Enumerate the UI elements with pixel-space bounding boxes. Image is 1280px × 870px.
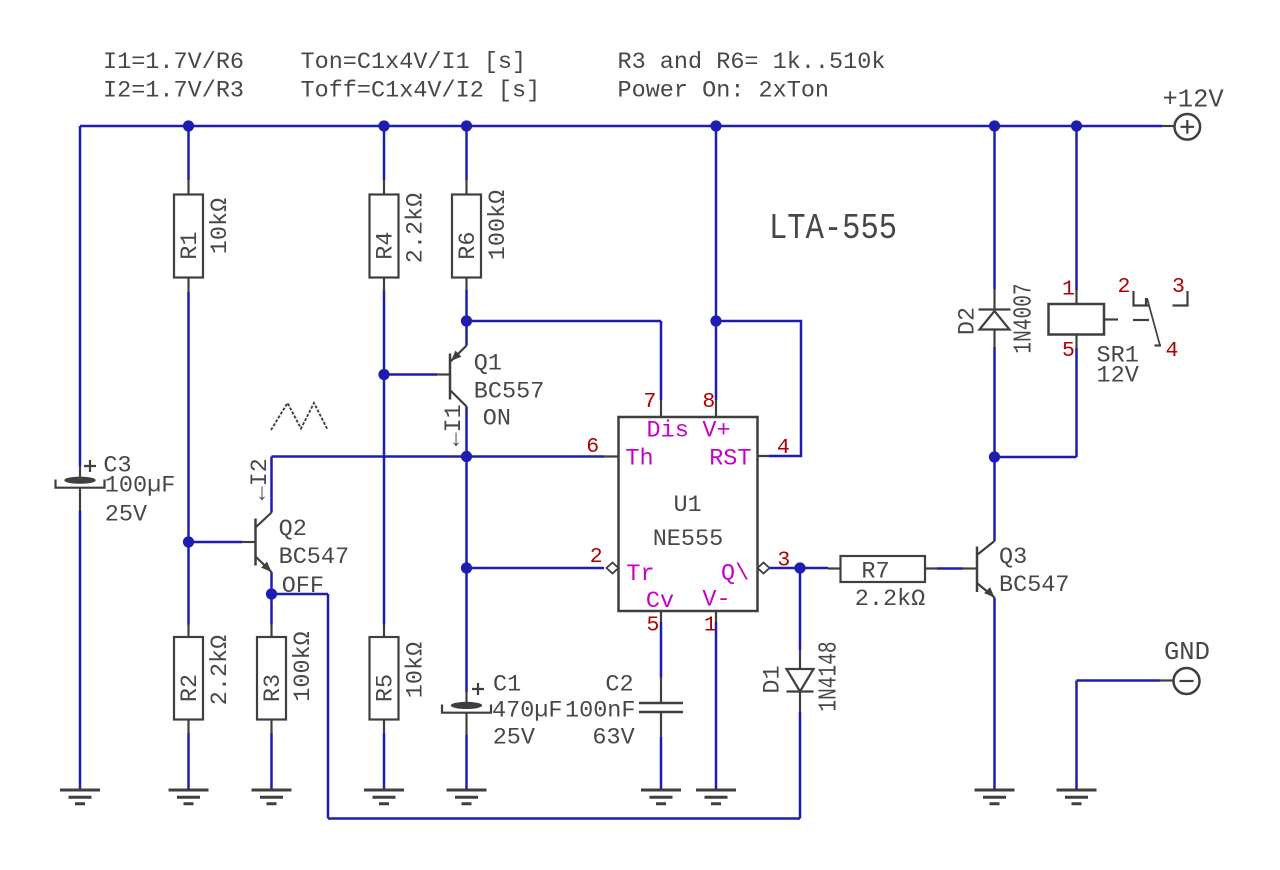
svg-text:BC557: BC557 [474,378,545,405]
wire pin1 to ground [715,622,718,789]
svg-text:U1: U1 [674,492,702,519]
svg-text:R3 and R6= 1k..510k: R3 and R6= 1k..510k [618,49,886,76]
svg-text:D1: D1 [760,665,787,693]
ground R3 [252,790,292,804]
node Q1 base R4 [378,369,389,380]
wire R2 bottom to ground [187,733,190,789]
wire R6 column top [465,126,468,180]
terminal +12V [1162,86,1224,140]
wire V+ column pin8 [715,126,718,400]
svg-text:Q2: Q2 [279,516,307,543]
wire Q out to node [769,567,828,570]
wire C1 bottom to ground [465,735,468,789]
wire R3 bottom to ground [270,733,273,789]
node Th R6 [461,451,472,462]
svg-text:4: 4 [777,436,790,460]
svg-text:R1: R1 [177,231,204,259]
svg-text:5: 5 [647,614,660,638]
svg-text:R3: R3 [260,674,287,702]
node D2 Q3 relay [989,451,1000,462]
node top R6 [461,120,472,131]
wire GND riser to ground [1075,681,1078,790]
diode D2 [955,283,1039,353]
svg-text:100kΩ: 100kΩ [290,631,317,702]
wire Q1 collector down [465,407,468,693]
svg-text:R5: R5 [373,674,400,702]
wire R4 bottom to R5 top [383,290,386,625]
svg-text:63V: 63V [592,725,634,752]
svg-text:OFF: OFF [282,573,324,600]
svg-text:D2: D2 [955,307,982,335]
svg-text:←I1: ←I1 [441,404,468,446]
node Q out D1 [794,562,805,573]
node Dis R6 [461,315,472,326]
op-amp U1 NE555 [586,390,790,638]
svg-text:Q3: Q3 [999,544,1027,571]
wire R7 to Q3 base [937,567,963,570]
svg-text:Th: Th [625,446,653,473]
diode D1 [760,641,844,712]
svg-text:4: 4 [1166,339,1179,363]
svg-text:R6: R6 [455,231,482,259]
ground Q3 [975,790,1015,804]
wire Q3 emitter to ground [993,598,996,790]
svg-text:R7: R7 [861,559,889,586]
svg-text:+12V: +12V [1163,86,1225,115]
svg-text:GND: GND [1164,638,1210,667]
svg-text:25V: 25V [105,501,147,528]
wire R6 bottom to Dis node [465,290,468,346]
resistor R5 [370,625,430,734]
wire RST link [716,321,801,456]
svg-text:RST: RST [709,446,751,473]
wire R1 column top [187,126,190,180]
svg-text:2.2kΩ: 2.2kΩ [403,193,430,264]
svg-text:Q1: Q1 [474,351,502,378]
relay SR1 coil [1049,278,1139,390]
svg-text:2.2kΩ: 2.2kΩ [855,586,926,613]
svg-text:2: 2 [590,545,603,569]
svg-text:BC547: BC547 [999,572,1070,599]
wire node to R3 top [270,594,273,625]
pin 2 diamond [607,563,619,574]
transistor Q3 [963,541,1070,599]
wire Q1 base [384,373,437,376]
svg-text:10kΩ: 10kΩ [403,642,430,698]
resistor R2 [174,625,234,734]
wire SR1 pin5 down [1075,348,1078,457]
svg-text:8: 8 [702,390,715,414]
svg-text:C2: C2 [605,671,633,698]
ground R5 [364,790,404,804]
resistor R6 [452,180,512,290]
terminal GND [1160,638,1210,694]
svg-text:Q\: Q\ [721,560,749,587]
wire bottom rail [328,817,800,820]
svg-text:1N4148: 1N4148 [814,641,843,711]
wire D1 to bottom rail [799,712,802,819]
svg-text:3: 3 [1172,275,1185,299]
ground C3 [60,790,100,804]
svg-text:Toff=C1x4V/I2 [s]: Toff=C1x4V/I2 [s] [301,78,541,105]
formula text R3R6 [618,49,886,105]
svg-text:1N4007: 1N4007 [1009,283,1038,353]
wire C2 to ground [660,737,663,789]
node top R4 [378,120,389,131]
wire SR1 column top [1075,126,1078,290]
node Q2 emitter R3 [266,588,277,599]
wire pin5 to C2 [660,622,663,678]
svg-text:Dis: Dis [647,418,689,445]
wire R1 bottom to Q2 base node [187,292,190,542]
ground R2 [169,790,209,804]
svg-text:25V: 25V [493,725,535,752]
ground pin1 [696,790,736,804]
svg-text:V-: V- [702,587,730,614]
node top V+ [710,120,721,131]
node Q2 base R1 [183,536,194,547]
node top SR1 [1071,120,1082,131]
svg-text:2.2kΩ: 2.2kΩ [207,635,234,706]
wire node to Q3 collector [993,457,996,541]
svg-text:1: 1 [704,614,717,638]
svg-text:5: 5 [1062,339,1075,363]
wire top +12V rail [80,125,1162,128]
svg-text:470µF: 470µF [492,697,563,724]
node Tr C1 [461,562,472,573]
svg-text:R4: R4 [373,231,400,259]
wire D2 bottom to node [993,347,996,457]
resistor R7 [828,556,937,613]
svg-text:NE555: NE555 [653,526,724,553]
wire Tr row [467,567,605,570]
wire left drop to C3 [79,126,82,467]
current label I2 [247,458,274,500]
capacitor C1 [442,671,563,751]
wire Q2 collector riser [270,457,273,513]
svg-text:C1: C1 [493,671,521,698]
svg-text:6: 6 [586,435,599,459]
wire Q2 emitter drop [270,572,273,594]
sawtooth waveform mark [271,403,328,430]
svg-text:BC547: BC547 [279,544,350,571]
wire Th row [272,455,605,458]
capacitor C3 [56,453,176,529]
ground C2 [641,790,681,804]
svg-text:Cv: Cv [646,588,674,615]
svg-text:I2=1.7V/R3: I2=1.7V/R3 [103,78,244,105]
wire D2 column top [993,126,996,289]
svg-text:100nF: 100nF [565,697,636,724]
svg-text:100µF: 100µF [105,472,176,499]
ground GND terminal [1057,790,1097,804]
svg-text:7: 7 [643,390,656,414]
formula text I1 [103,49,244,105]
wire R5 bottom to ground [383,733,386,789]
svg-text:100kΩ: 100kΩ [485,190,512,261]
svg-text:2: 2 [1118,275,1131,299]
resistor R1 [174,180,234,292]
svg-text:R2: R2 [177,674,204,702]
resistor R3 [257,625,317,734]
svg-text:Tr: Tr [626,561,654,588]
svg-text:LTA-555: LTA-555 [769,209,897,250]
svg-text:10kΩ: 10kΩ [207,198,234,254]
ground C1 [447,790,487,804]
transistor Q2 [242,513,349,601]
relay SR1 switch [1118,275,1188,363]
wire C3 to ground [79,511,82,790]
node top D2 [989,120,1000,131]
transistor Q1 [437,346,544,433]
wire riser Q2 emitter to bottom rail [327,594,330,819]
title LTA-555 [769,209,897,250]
svg-text:I1=1.7V/R6: I1=1.7V/R6 [103,49,244,76]
svg-text:Ton=C1x4V/I1 [s]: Ton=C1x4V/I1 [s] [301,49,527,76]
current label I1 [441,404,468,446]
wire Dis row [467,320,662,323]
svg-text:Power On: 2xTon: Power On: 2xTon [618,78,830,105]
resistor R4 [370,180,430,292]
svg-text:←I2: ←I2 [247,458,274,500]
wire Q2 emitter row [272,593,329,596]
wire node to D1 [799,568,802,650]
svg-text:12V: 12V [1097,363,1139,390]
node top R1 [183,120,194,131]
svg-text:ON: ON [483,406,511,433]
wire relay bottom row [995,456,1077,459]
node RST V+ [710,315,721,326]
wire Dis drop to pin7 [660,321,663,400]
svg-text:V+: V+ [702,418,730,445]
pin 3 diamond [758,563,770,574]
svg-text:1: 1 [1062,278,1075,302]
wire node to R2 top [187,542,190,625]
formula text Ton [301,49,541,105]
wire R4 column top [383,126,386,180]
svg-text:3: 3 [777,549,790,573]
wire Q2 base [189,541,243,544]
capacitor C2 [565,671,683,751]
wire GND terminal row [1077,679,1161,682]
